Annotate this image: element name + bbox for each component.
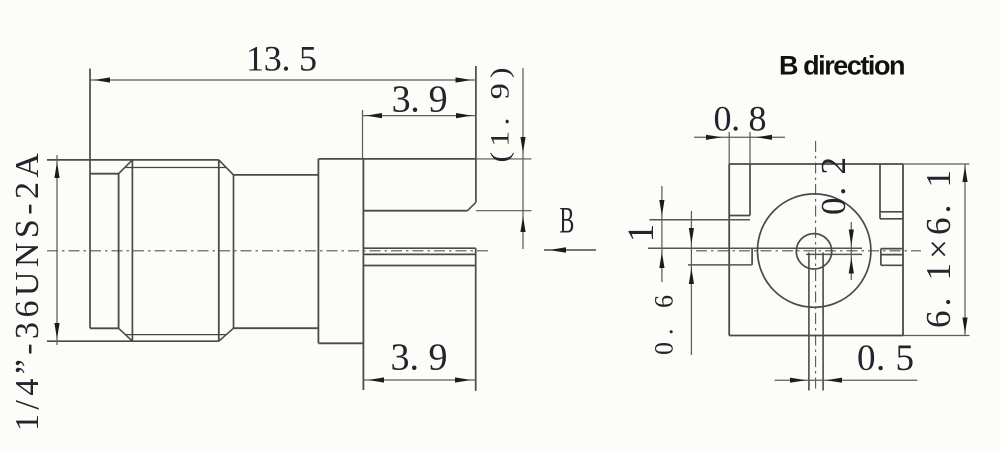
- dim 1 line: [661, 186, 663, 282]
- pin circle: [796, 234, 831, 269]
- top-left notch bottom: [729, 215, 750, 217]
- hex right end face: [218, 160, 220, 341]
- flange and tab top edge: [318, 158, 476, 160]
- dim 6.1x6.1 arrows: [962, 166, 967, 182]
- dim 0.6 line: [690, 211, 692, 355]
- hex chamfer diagonal top-left: [119, 160, 133, 174]
- dim 3.9 top line: [363, 115, 476, 117]
- dim (1.9) arrows: [520, 137, 525, 153]
- dim 3.9 top arrows: [366, 113, 382, 118]
- svg-text:1: 1: [621, 224, 662, 243]
- hex top edge with extension line: [47, 159, 219, 161]
- hex face division line left: [131, 160, 133, 341]
- slot left line: [808, 253, 810, 391]
- pin slot bottom line right: [806, 253, 862, 255]
- svg-text:13. 5: 13. 5: [246, 39, 317, 79]
- square body right edge: [902, 164, 904, 336]
- svg-text:1/4”-36UNS-2A: 1/4”-36UNS-2A: [9, 153, 46, 431]
- thread barrel left end: [89, 69, 91, 329]
- tab right edge with extension line: [475, 66, 477, 202]
- flange bottom edge: [318, 342, 363, 344]
- svg-text:0. 6: 0. 6: [650, 295, 679, 355]
- svg-text:0. 8: 0. 8: [714, 98, 767, 138]
- right mid notch bottom: [881, 264, 903, 266]
- svg-text:6. 1×6. 1: 6. 1×6. 1: [919, 170, 958, 328]
- dim 6.1x6.1 extensions: [903, 163, 970, 165]
- dim 13.5 line: [90, 79, 476, 81]
- top-left notch inner edge: [749, 164, 751, 216]
- dim 0.2 arrows: [849, 230, 854, 246]
- svg-text:0. 2: 0. 2: [814, 157, 853, 215]
- svg-text:B direction: B direction: [779, 51, 904, 81]
- hex chamfer diagonal top-right: [219, 160, 234, 175]
- left slot top line with extension: [648, 247, 862, 249]
- dim 0.8 arrows: [706, 135, 722, 140]
- svg-text:3. 9: 3. 9: [391, 337, 448, 379]
- svg-text:(1. 9): (1. 9): [486, 68, 515, 163]
- hex chamfer line bottom: [126, 334, 227, 336]
- hex nut left end face: [118, 174, 120, 329]
- leg top edge: [363, 265, 475, 267]
- body front face: [362, 159, 364, 390]
- dim 3.9 top extension: [362, 110, 364, 159]
- square body bottom edge: [729, 335, 903, 337]
- right mid notch middle line: [881, 254, 903, 256]
- square body top edge: [729, 163, 903, 165]
- dim 13.5 arrows: [94, 77, 110, 82]
- tab bottom extension line: [476, 210, 532, 212]
- centerline side view: [47, 250, 492, 252]
- barrel bottom edge: [234, 327, 319, 329]
- pin slot top line: [363, 247, 475, 249]
- B direction arrow: [544, 249, 596, 251]
- leg right edge with extension: [475, 248, 477, 391]
- dim 0.8 line: [694, 136, 785, 138]
- thread dim line: [56, 155, 58, 345]
- top-right notch inner edge: [879, 164, 881, 219]
- barrel top edge: [234, 174, 319, 176]
- B view vertical centerline: [815, 141, 817, 391]
- top-right notch second line: [880, 218, 903, 220]
- dim 0.8 extensions: [728, 132, 730, 164]
- hex chamfer diagonal bottom-left: [119, 328, 133, 341]
- dim 3.9 bottom line: [363, 379, 475, 381]
- B view horizontal centerline: [696, 250, 921, 252]
- dim 0.5 line: [775, 379, 918, 381]
- dim 6.1x6.1 line: [964, 164, 966, 336]
- dim 1 arrows: [659, 200, 664, 216]
- square body left edge: [728, 164, 730, 336]
- tab top extension line: [476, 158, 532, 160]
- tab corner chamfer: [468, 202, 476, 210]
- hex chamfer diagonal bottom-right: [219, 328, 234, 341]
- slot right line: [822, 253, 824, 391]
- svg-text:B: B: [560, 200, 575, 241]
- left feature line with extension: [650, 219, 751, 221]
- svg-text:0. 5: 0. 5: [857, 338, 914, 379]
- dim 0.5 arrows: [790, 378, 806, 383]
- dim 0.2 line: [850, 222, 852, 280]
- flange left face: [317, 159, 319, 343]
- right mid notch top: [881, 248, 903, 250]
- thread barrel top edge: [90, 173, 119, 175]
- tab bottom edge: [363, 210, 467, 212]
- thread barrel bottom edge: [90, 327, 119, 329]
- thread dim arrows: [54, 162, 59, 178]
- dim 3.9 bottom arrows: [368, 377, 384, 382]
- right mid notch left edge: [880, 249, 882, 266]
- pin slot bottom line: [363, 253, 475, 255]
- barrel step face: [233, 175, 235, 328]
- left step edge: [751, 248, 753, 265]
- dim (1.9) line: [522, 68, 524, 249]
- top-right notch bottom: [880, 211, 903, 213]
- hex bottom edge with extension line: [47, 340, 219, 342]
- flange circle: [758, 194, 871, 307]
- dim 0.6 arrows: [689, 228, 694, 244]
- hex chamfer line top: [126, 167, 227, 169]
- left step bottom with extension: [688, 264, 752, 266]
- svg-text:3. 9: 3. 9: [392, 79, 448, 121]
